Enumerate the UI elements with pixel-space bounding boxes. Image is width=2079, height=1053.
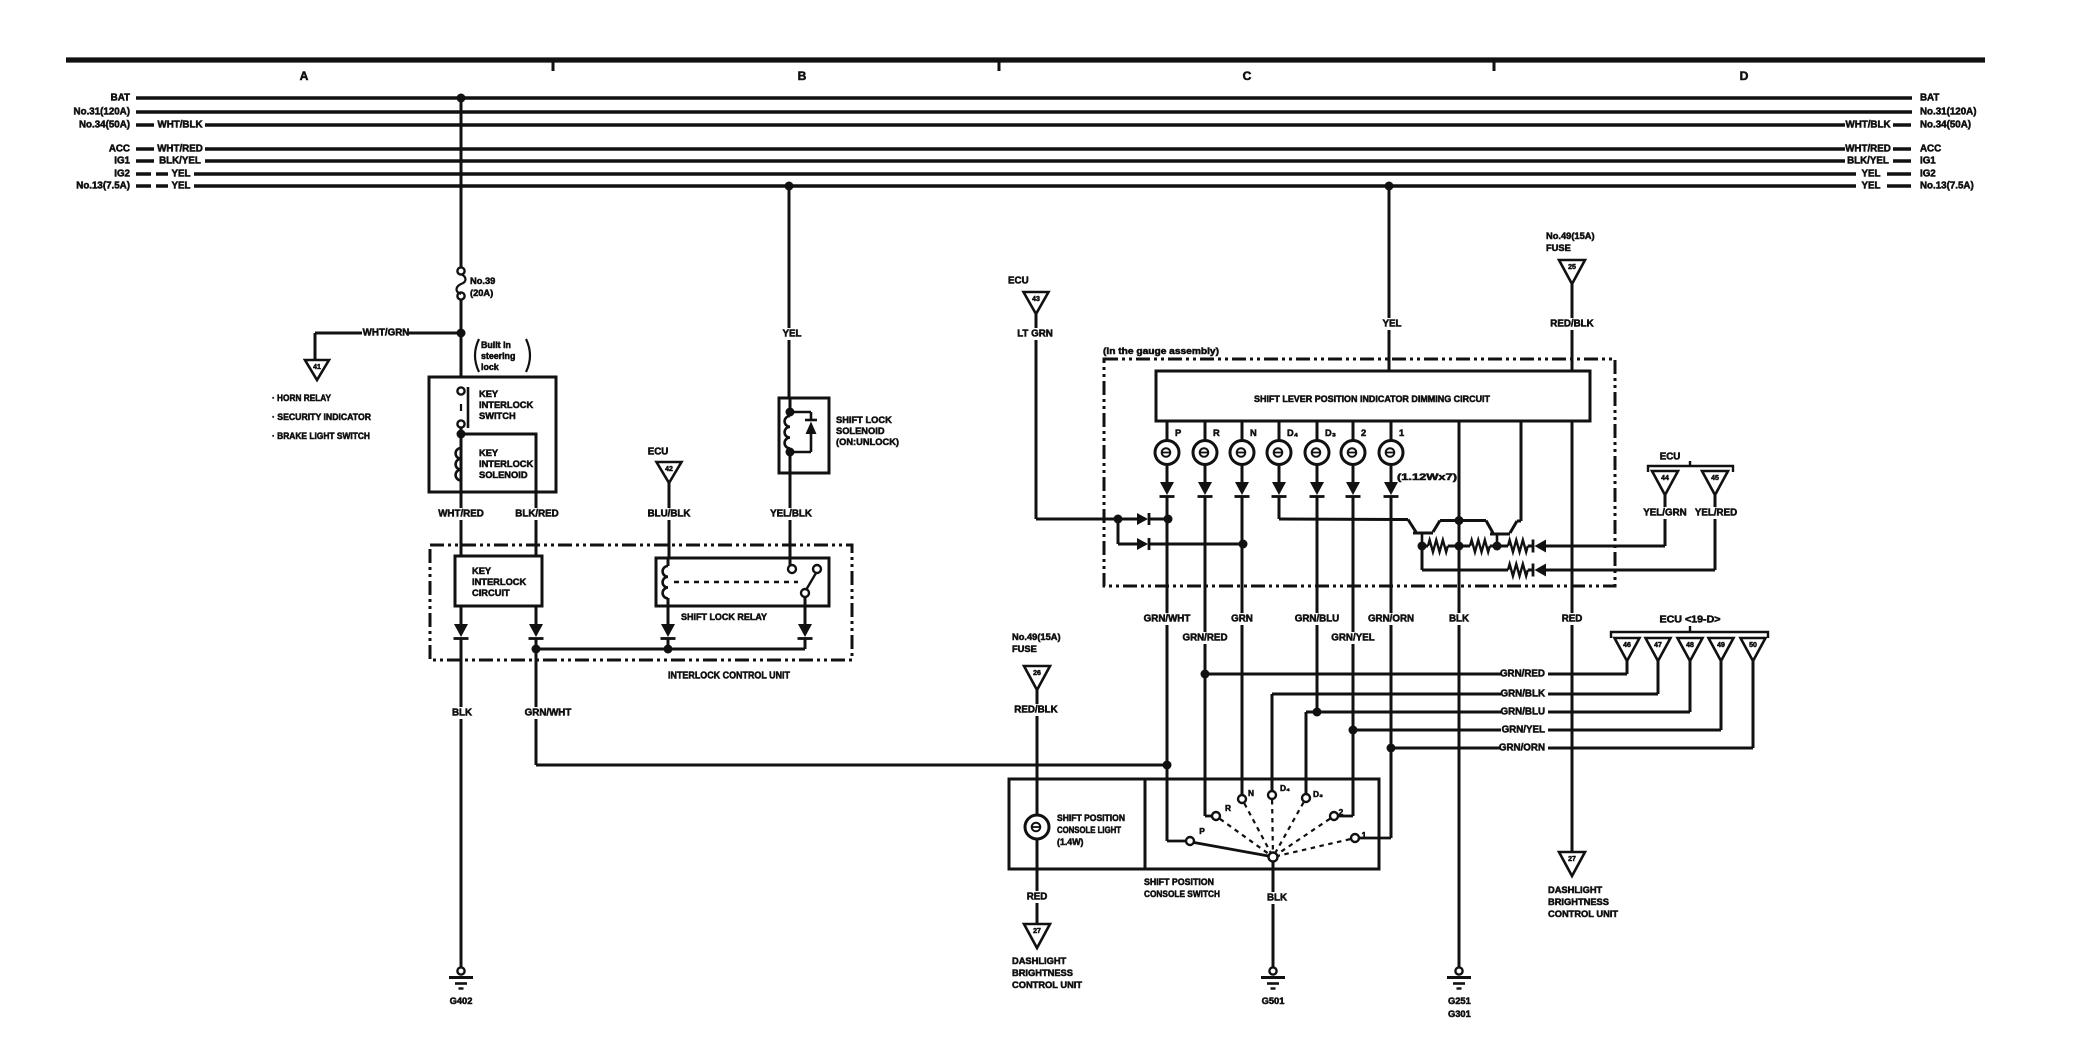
svg-text:R: R: [1213, 428, 1220, 438]
svg-text:BLK/YEL: BLK/YEL: [1847, 156, 1889, 167]
svg-text:No.49(15A): No.49(15A): [1546, 231, 1595, 241]
svg-text:R: R: [1225, 803, 1231, 813]
svg-text:SHIFT LOCK: SHIFT LOCK: [836, 415, 892, 425]
svg-text:P: P: [1199, 826, 1205, 836]
svg-text:SHIFT POSITION: SHIFT POSITION: [1144, 877, 1214, 887]
svg-text:25: 25: [1568, 264, 1576, 271]
svg-text:SWITCH: SWITCH: [479, 411, 516, 421]
svg-text:RED/BLK: RED/BLK: [1550, 319, 1593, 330]
svg-text:GRN/BLU: GRN/BLU: [1501, 707, 1545, 718]
svg-text:WHT/RED: WHT/RED: [438, 509, 484, 520]
svg-text:YEL/BLK: YEL/BLK: [770, 509, 812, 520]
svg-text:P: P: [1175, 428, 1181, 438]
svg-text:ECU: ECU: [1008, 276, 1029, 287]
svg-text:BLK/RED: BLK/RED: [515, 509, 558, 520]
svg-text:(1.4W): (1.4W): [1057, 837, 1084, 847]
svg-text:ECU: ECU: [648, 447, 669, 458]
svg-text:BRIGHTNESS: BRIGHTNESS: [1548, 897, 1609, 907]
svg-text:IG1: IG1: [114, 156, 130, 167]
svg-text:ECU <19-D>: ECU <19-D>: [1660, 615, 1721, 626]
svg-text:BRIGHTNESS: BRIGHTNESS: [1012, 968, 1073, 978]
svg-text:(ON:UNLOCK): (ON:UNLOCK): [836, 437, 899, 447]
svg-text:BLK: BLK: [1267, 893, 1287, 904]
svg-text:N: N: [1248, 788, 1254, 798]
svg-text:GRN/YEL: GRN/YEL: [1331, 633, 1374, 644]
svg-text:WHT/BLK: WHT/BLK: [1845, 120, 1890, 131]
svg-text:DASHLIGHT: DASHLIGHT: [1548, 885, 1603, 895]
svg-text:KEY: KEY: [479, 448, 499, 458]
svg-text:49: 49: [1717, 642, 1725, 649]
svg-text:GRN: GRN: [1231, 614, 1253, 625]
svg-text:(in the gauge assembly): (in the gauge assembly): [1103, 346, 1219, 356]
svg-text:50: 50: [1749, 642, 1757, 649]
svg-text:42: 42: [665, 466, 673, 473]
svg-text:ECU: ECU: [1660, 452, 1681, 463]
svg-text:YEL: YEL: [172, 169, 191, 180]
svg-text:WHT/BLK: WHT/BLK: [157, 120, 202, 131]
svg-text:IG2: IG2: [1920, 169, 1936, 180]
svg-text:BLU/BLK: BLU/BLK: [648, 509, 691, 520]
svg-text:G301: G301: [1448, 1009, 1471, 1019]
svg-text:GRN/BLU: GRN/BLU: [1295, 614, 1339, 625]
svg-text:GRN/YEL: GRN/YEL: [1502, 725, 1545, 736]
svg-text:SHIFT POSITION: SHIFT POSITION: [1057, 813, 1125, 823]
svg-text:No.13(7.5A): No.13(7.5A): [76, 181, 130, 192]
svg-text:· BRAKE LIGHT SWITCH: · BRAKE LIGHT SWITCH: [272, 431, 370, 441]
svg-text:WHT/RED: WHT/RED: [157, 144, 203, 155]
svg-text:FUSE: FUSE: [1012, 644, 1037, 654]
svg-text:41: 41: [313, 364, 321, 371]
svg-text:BAT: BAT: [111, 93, 130, 104]
svg-text:A: A: [300, 69, 309, 83]
svg-text:No.34(50A): No.34(50A): [1920, 120, 1971, 131]
svg-text:GRN/ORN: GRN/ORN: [1368, 614, 1414, 625]
svg-text:No.13(7.5A): No.13(7.5A): [1920, 181, 1974, 192]
svg-text:ACC: ACC: [1920, 144, 1941, 155]
svg-text:26: 26: [1033, 670, 1041, 677]
svg-text:BAT: BAT: [1920, 93, 1939, 104]
svg-text:INTERLOCK: INTERLOCK: [479, 400, 534, 410]
svg-text:D₄: D₄: [1280, 783, 1290, 793]
svg-text:YEL: YEL: [172, 181, 191, 192]
svg-text:INTERLOCK CONTROL UNIT: INTERLOCK CONTROL UNIT: [668, 671, 790, 682]
svg-text:D₄: D₄: [1287, 428, 1298, 438]
svg-text:GRN/WHT: GRN/WHT: [525, 708, 572, 719]
svg-text:44: 44: [1661, 475, 1669, 482]
svg-text:BLK: BLK: [1449, 614, 1469, 625]
svg-text:2: 2: [1361, 428, 1366, 438]
svg-text:D: D: [1740, 69, 1749, 83]
svg-text:· HORN RELAY: · HORN RELAY: [272, 393, 332, 403]
svg-text:KEY: KEY: [479, 389, 499, 399]
svg-text:LT GRN: LT GRN: [1017, 329, 1053, 340]
svg-text:GRN/ORN: GRN/ORN: [1499, 743, 1545, 754]
svg-text:27: 27: [1033, 928, 1041, 935]
svg-text:1: 1: [1399, 428, 1404, 438]
svg-text:48: 48: [1686, 642, 1694, 649]
svg-text:YEL: YEL: [1862, 169, 1881, 180]
svg-text:G501: G501: [1262, 996, 1285, 1006]
svg-text:KEY: KEY: [472, 566, 492, 576]
svg-text:45: 45: [1711, 475, 1719, 482]
svg-text:YEL: YEL: [1862, 181, 1881, 192]
svg-text:YEL/GRN: YEL/GRN: [1643, 508, 1686, 519]
svg-text:WHT/GRN: WHT/GRN: [363, 328, 410, 339]
svg-text:No.34(50A): No.34(50A): [79, 120, 130, 131]
svg-text:43: 43: [1032, 296, 1040, 303]
svg-text:RED: RED: [1562, 614, 1583, 625]
svg-text:No.31(120A): No.31(120A): [74, 107, 130, 118]
svg-text:ACC: ACC: [109, 144, 130, 155]
svg-text:47: 47: [1654, 642, 1662, 649]
svg-text:GRN/RED: GRN/RED: [1182, 633, 1227, 644]
svg-text:CIRCUIT: CIRCUIT: [472, 588, 510, 598]
svg-text:YEL/RED: YEL/RED: [1695, 508, 1737, 519]
svg-text:G251: G251: [1448, 996, 1471, 1006]
svg-text:CONTROL UNIT: CONTROL UNIT: [1548, 909, 1618, 919]
svg-text:RED/BLK: RED/BLK: [1014, 705, 1057, 716]
svg-text:No.39: No.39: [470, 276, 495, 286]
svg-text:CONSOLE LIGHT: CONSOLE LIGHT: [1057, 825, 1122, 835]
svg-text:RED: RED: [1027, 892, 1048, 903]
svg-text:SOLENOID: SOLENOID: [479, 470, 528, 480]
svg-text:steering: steering: [481, 351, 515, 361]
svg-text:lock: lock: [481, 362, 499, 372]
svg-text:CONTROL UNIT: CONTROL UNIT: [1012, 980, 1082, 990]
svg-text:DASHLIGHT: DASHLIGHT: [1012, 956, 1067, 966]
svg-text:SOLENOID: SOLENOID: [836, 426, 885, 436]
svg-text:INTERLOCK: INTERLOCK: [472, 577, 527, 587]
svg-text:IG2: IG2: [114, 169, 130, 180]
svg-text:No.49(15A): No.49(15A): [1012, 632, 1061, 642]
svg-text:46: 46: [1623, 642, 1631, 649]
svg-text:1: 1: [1362, 830, 1367, 840]
svg-text:· SECURITY INDICATOR: · SECURITY INDICATOR: [272, 412, 371, 422]
svg-text:GRN/BLK: GRN/BLK: [1501, 689, 1545, 700]
svg-text:BLK/YEL: BLK/YEL: [159, 156, 201, 167]
svg-text:CONSOLE SWITCH: CONSOLE SWITCH: [1144, 889, 1220, 899]
svg-text:GRN/RED: GRN/RED: [1500, 669, 1545, 680]
svg-text:YEL: YEL: [783, 329, 802, 340]
svg-text:GRN/WHT: GRN/WHT: [1144, 614, 1191, 625]
svg-text:BLK: BLK: [452, 708, 472, 719]
svg-text:INTERLOCK: INTERLOCK: [479, 459, 534, 469]
svg-text:(1.12Wx7): (1.12Wx7): [1397, 472, 1457, 482]
svg-text:N: N: [1250, 428, 1257, 438]
svg-text:C: C: [1243, 69, 1252, 83]
svg-text:27: 27: [1568, 856, 1576, 863]
svg-text:G402: G402: [450, 996, 473, 1006]
svg-text:FUSE: FUSE: [1546, 243, 1571, 253]
svg-text:WHT/RED: WHT/RED: [1845, 144, 1891, 155]
svg-text:SHIFT LEVER POSITION INDICATOR: SHIFT LEVER POSITION INDICATOR DIMMING C…: [1254, 394, 1490, 404]
svg-text:YEL: YEL: [1383, 319, 1402, 330]
svg-text:2: 2: [1339, 807, 1344, 817]
svg-text:IG1: IG1: [1920, 156, 1936, 167]
svg-text:No.31(120A): No.31(120A): [1920, 107, 1976, 118]
svg-text:B: B: [798, 69, 807, 83]
svg-text:SHIFT LOCK RELAY: SHIFT LOCK RELAY: [681, 612, 768, 622]
svg-text:D₃: D₃: [1313, 789, 1323, 799]
svg-text:D₃: D₃: [1325, 428, 1336, 438]
svg-text:Built in: Built in: [481, 340, 511, 350]
svg-text:(20A): (20A): [470, 288, 493, 298]
